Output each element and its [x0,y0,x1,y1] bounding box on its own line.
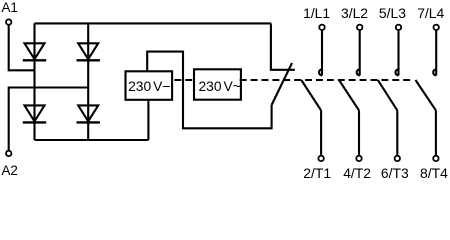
svg-text:1/L1: 1/L1 [303,5,330,21]
auxiliary contact blade (NC economizer) [272,63,292,105]
mechanical linkage dashed line to poles [240,79,410,81]
pole 2 terminal 4/T2 [356,156,361,161]
pole 1 moving blade [301,80,321,110]
wire aux contact return to coil box [147,52,271,129]
pole 4 fixed contact wire [435,31,437,76]
pole 2 fixed contact arc [357,69,360,75]
wire top rail drop to auxiliary contact [271,23,295,69]
svg-text:4/T2: 4/T2 [343,165,371,181]
wire coil box to bottom rail [147,100,149,140]
svg-text:230 V−: 230 V− [128,79,170,94]
terminal A1 [6,19,11,24]
pole 1 fixed contact wire [321,31,323,76]
pole 3 fixed contact arc [396,69,399,75]
diode D2 [77,43,100,60]
pole 2 moving blade [339,80,359,110]
svg-text:7/L4: 7/L4 [417,5,444,21]
pole 3 fixed contact wire [397,31,399,76]
bridge column 2 wire [87,23,89,140]
svg-text:5/L3: 5/L3 [379,5,406,21]
pole 1 fixed contact arc [319,69,322,75]
pole 2 fixed contact wire [359,31,361,76]
diode D1 [23,43,46,60]
pole 1 terminal 2/T1 [318,156,323,161]
pole 4 moving blade [416,80,436,110]
wire A1 to bridge column 1 [9,25,35,70]
coil box 230 V AC [194,69,241,99]
pole 1 wire to terminal 2/T1 [320,110,322,154]
diode D4 [77,105,100,122]
svg-text:2/T1: 2/T1 [303,165,331,181]
wire A2 to bridge column 2 [9,88,89,151]
svg-text:230 V~: 230 V~ [199,79,241,94]
diode D3 [23,105,46,122]
pole 4 wire to terminal 8/T4 [435,110,437,154]
svg-text:8/T4: 8/T4 [420,165,448,181]
pole 3 wire to terminal 6/T3 [396,110,398,154]
pole 3 moving blade [378,80,398,110]
pole 4 terminal 7/L4 [434,25,439,30]
bottom rail wire [35,139,149,141]
svg-text:A1: A1 [2,0,18,15]
svg-text:6/T3: 6/T3 [381,165,409,181]
pole 4 terminal 8/T4 [433,156,438,161]
svg-text:3/L2: 3/L2 [341,5,368,21]
terminal A2 [6,151,11,156]
pole 4 fixed contact arc [433,69,436,75]
bridge column 1 wire [33,23,35,140]
svg-text:A2: A2 [2,163,18,178]
pole 1 terminal 1/L1 [319,25,324,30]
pole 2 wire to terminal 4/T2 [358,110,360,154]
coil box 230 V DC [126,71,173,100]
pole 3 terminal 5/L3 [396,25,401,30]
mechanical linkage dashed line between coil boxes [174,79,192,81]
top rail wire [35,22,271,24]
pole 2 terminal 3/L2 [357,25,362,30]
pole 3 terminal 6/T3 [395,156,400,161]
